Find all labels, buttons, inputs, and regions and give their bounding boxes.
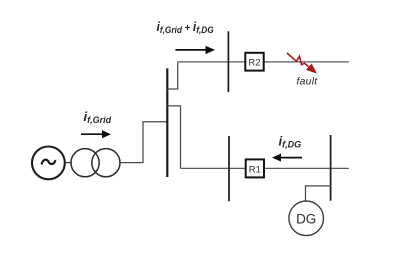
wire main bus to bottom feeder — [167, 106, 180, 168]
wire bottom feeder — [181, 167, 349, 169]
wire DG to bus B4 — [306, 186, 331, 201]
main bus B1 — [166, 68, 168, 177]
wire top feeder — [178, 61, 349, 63]
AC grid source G1 — [32, 147, 65, 180]
svg-text:R1: R1 — [249, 164, 261, 175]
wire source to transformer — [65, 162, 71, 164]
svg-text:DG: DG — [296, 211, 316, 226]
svg-text:fault: fault — [297, 77, 319, 88]
bus B3 (bottom) — [228, 136, 230, 201]
svg-text:if,Grid: if,Grid — [84, 109, 112, 125]
arrow current right (if,DG) — [272, 154, 302, 162]
bus B4 (DG bus) — [330, 135, 332, 201]
bus B2 (top) — [227, 31, 229, 92]
relay R2 — [245, 53, 263, 71]
svg-text:R2: R2 — [248, 58, 260, 69]
DG source — [289, 201, 324, 236]
svg-text:if,Grid + if,DG: if,Grid + if,DG — [157, 20, 214, 36]
wire transformer to main bus — [120, 122, 167, 163]
arrow current left (if,Grid) — [81, 130, 111, 138]
fault bolt F1 — [287, 53, 317, 74]
wire main bus to top feeder — [167, 62, 177, 89]
transformer T1 — [71, 149, 120, 177]
relay R1 — [246, 159, 264, 177]
arrow current top (if,Grid + if,DG) — [175, 46, 215, 54]
svg-text:if,DG: if,DG — [279, 133, 302, 149]
label if,Grid + if,DG — [157, 20, 214, 36]
